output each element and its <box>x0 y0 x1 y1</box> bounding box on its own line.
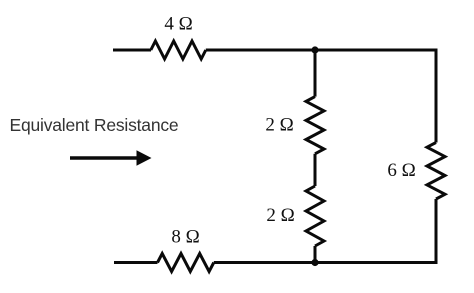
svg-text:4 Ω: 4 Ω <box>164 14 192 35</box>
svg-text:2 Ω: 2 Ω <box>266 205 294 226</box>
svg-text:2 Ω: 2 Ω <box>265 115 293 136</box>
arrow indicating looking-in direction <box>70 150 152 165</box>
wire between R3 and R4 <box>314 154 317 186</box>
wire top junction to top-right corner <box>315 49 438 52</box>
node junction dot top <box>311 46 318 53</box>
wire R2 to bottom-left terminal <box>114 261 158 264</box>
svg-text:6 Ω: 6 Ω <box>387 160 415 181</box>
node junction dot bottom <box>311 259 318 266</box>
svg-text:Equivalent Resistance: Equivalent Resistance <box>10 115 179 135</box>
resistor R5 6Ω (right vertical) <box>427 143 445 200</box>
resistor R4 2Ω (middle lower) <box>306 186 324 246</box>
wire right branch lower segment <box>435 199 438 264</box>
wire R1 to top junction <box>206 49 315 52</box>
svg-text:8 Ω: 8 Ω <box>171 227 199 248</box>
resistor R3 2Ω (middle upper) <box>306 97 324 154</box>
wire bottom junction to R2 <box>214 261 315 264</box>
resistor R2 8Ω (bottom horizontal) <box>158 254 214 272</box>
wire bottom-right corner to bottom junction <box>315 261 438 264</box>
wire right branch upper segment <box>435 49 438 143</box>
wire top-left terminal to R1 <box>113 49 151 52</box>
wire middle branch top segment <box>314 50 317 97</box>
resistor R1 4Ω (top horizontal) <box>151 41 206 59</box>
wire R4 to bottom junction <box>314 246 317 263</box>
